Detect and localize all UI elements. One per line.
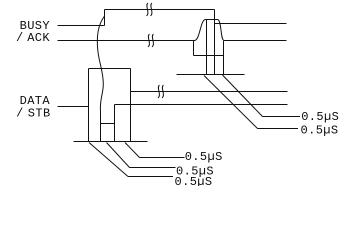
svg-text:ACK: ACK	[27, 31, 50, 45]
svg-text:/: /	[16, 106, 24, 120]
svg-text:0.5µS: 0.5µS	[175, 175, 213, 186]
svg-text:/: /	[16, 31, 24, 45]
svg-text:STB: STB	[28, 106, 51, 120]
svg-text:0.5µS: 0.5µS	[301, 110, 339, 124]
svg-text:0.5µS: 0.5µS	[301, 124, 339, 138]
svg-text:0.5µS: 0.5µS	[185, 150, 223, 164]
